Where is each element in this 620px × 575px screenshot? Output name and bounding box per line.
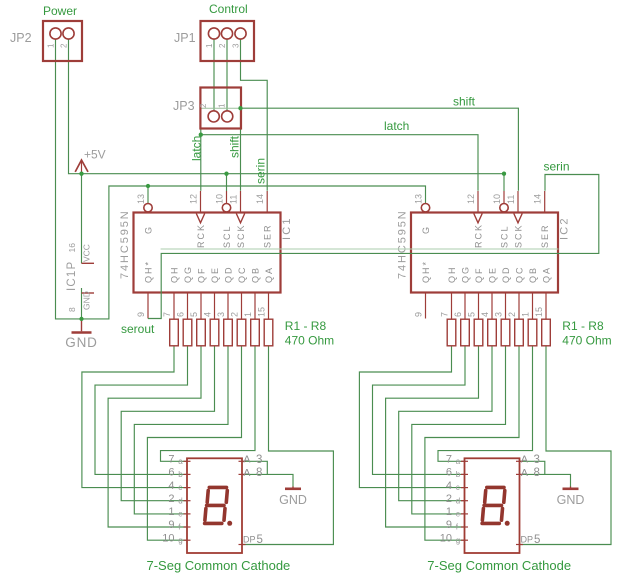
svg-text:2: 2: [218, 43, 227, 48]
net label serin (vertical): [254, 158, 268, 184]
svg-text:c: c: [456, 483, 460, 492]
svg-text:5: 5: [534, 534, 540, 546]
svg-text:10: 10: [492, 194, 502, 204]
svg-text:10: 10: [215, 194, 225, 204]
resistor R7 (bank 2): [528, 319, 537, 346]
svg-text:A: A: [521, 467, 528, 479]
svg-text:d: d: [456, 496, 460, 505]
wire display2 R5 to segment e: [412, 346, 506, 514]
resistor R6 (bank 2): [515, 319, 524, 346]
svg-text:5: 5: [467, 312, 477, 317]
wire display1 R2 to segment b: [95, 346, 188, 475]
wire display2 R4 to segment d: [399, 346, 492, 501]
svg-text:QE: QE: [488, 266, 498, 283]
svg-text:GND: GND: [279, 493, 307, 507]
connector JP3: [199, 88, 241, 129]
net label latch (horizontal): [384, 119, 409, 133]
svg-text:3: 3: [232, 43, 241, 48]
svg-text:4: 4: [446, 480, 452, 492]
svg-text:470 Ohm: 470 Ohm: [285, 334, 334, 348]
net label latch (vertical): [189, 136, 203, 161]
IC1 bottom pin numbers 9 7 6 5 4 3 2 1 15: [136, 307, 267, 317]
resistor R7 (bank 1): [251, 319, 260, 346]
wire +5V stub to IC2 SCL: [503, 174, 505, 191]
svg-text:QA: QA: [264, 266, 274, 283]
svg-text:A: A: [243, 454, 250, 466]
svg-text:A: A: [521, 454, 528, 466]
IC2 top pin numbers 13 12 10 11 14: [414, 194, 543, 204]
svg-text:JP2: JP2: [10, 31, 32, 45]
svg-text:g: g: [178, 536, 182, 545]
label 74HC595N of IC1: [119, 209, 131, 279]
IC1 top pin numbers 13 12 10 11 14: [136, 194, 265, 204]
junction shift at JP3: [238, 106, 242, 110]
IC1 top pin names G RCK SCL SCK SER: [144, 223, 273, 248]
svg-text:6: 6: [446, 467, 452, 479]
svg-text:SCL: SCL: [222, 224, 232, 248]
ground GND main: [72, 319, 92, 333]
svg-text:3: 3: [216, 312, 226, 317]
svg-text:8: 8: [534, 467, 540, 479]
IC2 bottom pin names QH* QH QG QF QE QD QC QB QA: [421, 260, 552, 283]
resistor R8 (bank 1): [264, 319, 273, 346]
svg-text:4: 4: [168, 480, 174, 492]
svg-text:5: 5: [189, 312, 199, 317]
wire JP1.2 to JP3.1: [226, 39, 228, 112]
wire display1 R6 to segment g: [147, 346, 241, 540]
net label serin (IC2): [544, 160, 570, 174]
power +5V symbol: [75, 160, 88, 174]
label JP1: [174, 31, 196, 45]
svg-text:GND: GND: [557, 493, 585, 507]
svg-text:GND: GND: [65, 335, 97, 350]
resistor R8 (bank 2): [542, 319, 551, 346]
svg-text:15: 15: [257, 307, 267, 317]
svg-text:QE: QE: [210, 266, 220, 283]
svg-text:1: 1: [243, 312, 253, 317]
svg-text:shift: shift: [453, 95, 476, 109]
power part IC1P pins 16 VCC / 8 GND: [67, 243, 94, 312]
svg-text:470 Ohm: 470 Ohm: [562, 334, 611, 348]
svg-text:c: c: [178, 483, 182, 492]
net label shift (vertical): [228, 135, 242, 158]
svg-text:14: 14: [533, 194, 543, 204]
svg-text:QB: QB: [528, 266, 538, 283]
wire display2 R2 to segment b: [373, 346, 466, 475]
svg-text:11: 11: [229, 195, 239, 204]
svg-text:1: 1: [446, 506, 452, 518]
7-seg display 2 body: [461, 458, 523, 553]
svg-text:e: e: [456, 510, 461, 519]
svg-text:serin: serin: [254, 158, 268, 184]
svg-text:+5V: +5V: [84, 148, 106, 162]
svg-text:a: a: [178, 457, 183, 466]
wire latch vertical to IC1 RCK: [200, 135, 202, 191]
svg-text:serout: serout: [121, 322, 155, 336]
display 2 segment pin labels a-g: [440, 454, 461, 545]
label IC2: [559, 216, 571, 240]
wire JP1.3 serin to IC1 SER: [241, 39, 268, 191]
svg-text:1: 1: [218, 103, 227, 108]
svg-text:R1 - R8: R1 - R8: [285, 319, 327, 333]
svg-text:Control: Control: [209, 2, 248, 16]
resistor R4 (bank 2): [488, 319, 497, 346]
label 470 Ohm (bank 1): [285, 334, 334, 348]
label 74HC595N of IC2: [397, 209, 409, 279]
resistor R4 (bank 1): [210, 319, 219, 346]
svg-text:1: 1: [47, 43, 56, 48]
svg-text:DP: DP: [243, 535, 256, 545]
resistor R1 (bank 2): [447, 319, 456, 346]
svg-text:b: b: [456, 470, 461, 479]
wire IC1P GND: [81, 288, 83, 319]
wire display2 R1 to segment c: [359, 346, 464, 488]
svg-text:g: g: [456, 536, 460, 545]
label R1 - R8 (bank 2): [562, 319, 604, 333]
svg-text:serin: serin: [544, 160, 570, 174]
svg-text:QG: QG: [183, 265, 193, 283]
svg-text:6: 6: [453, 312, 463, 317]
IC2 top pin names G RCK SCL SCK SER: [421, 223, 550, 248]
svg-text:2: 2: [168, 493, 174, 505]
svg-text:10: 10: [440, 532, 452, 544]
svg-text:13: 13: [414, 194, 424, 204]
label R1 - R8 (bank 1): [285, 319, 327, 333]
svg-text:SER: SER: [540, 223, 550, 248]
wire shift net: [241, 108, 519, 191]
label IC1P: [66, 261, 78, 291]
svg-text:VCC: VCC: [82, 244, 92, 262]
junction latch at JP3: [199, 133, 203, 137]
svg-text:QD: QD: [501, 266, 511, 284]
IC2 bottom pin leads: [426, 293, 547, 320]
svg-text:latch: latch: [189, 136, 203, 161]
svg-text:12: 12: [466, 194, 476, 204]
svg-text:DP: DP: [521, 535, 534, 545]
svg-text:1: 1: [205, 43, 214, 48]
svg-text:14: 14: [255, 194, 265, 204]
svg-text:7: 7: [162, 312, 172, 317]
IC1 bottom pin leads: [148, 293, 269, 320]
svg-text:6: 6: [176, 312, 186, 317]
connector JP1 (Control): [201, 21, 255, 61]
label GND display 2: [557, 493, 585, 507]
label 7-Seg Common Cathode (2): [427, 558, 571, 573]
svg-text:QH: QH: [170, 266, 180, 284]
digit 8 of display 2: [482, 487, 510, 525]
ground GND display 2: [563, 487, 579, 489]
wire display2 R6 to segment g: [425, 346, 519, 540]
svg-text:3: 3: [494, 312, 504, 317]
svg-text:4: 4: [203, 312, 213, 317]
7-seg display 1 body: [184, 458, 246, 553]
wire display1 A8 to GND: [242, 474, 293, 486]
wire IC1P VCC: [81, 174, 83, 264]
wire display1 R8 to segment DP: [242, 346, 333, 545]
wire +5V stub to IC1 SCL: [226, 174, 228, 191]
svg-text:7: 7: [440, 312, 450, 317]
svg-text:QB: QB: [251, 266, 261, 283]
wire display2 R7 to segment a: [438, 346, 533, 462]
wire G net: [82, 186, 426, 319]
resistor R2 (bank 2): [461, 319, 470, 346]
svg-text:7: 7: [446, 454, 452, 466]
wire JP2.2 to +5V rail: [69, 39, 82, 174]
net label serout: [121, 322, 155, 336]
svg-text:JP1: JP1: [174, 31, 196, 45]
svg-text:74HC595N: 74HC595N: [119, 209, 131, 279]
wire JP1.1 to JP3.2: [213, 39, 215, 112]
svg-text:QF: QF: [197, 267, 207, 284]
svg-text:2: 2: [199, 103, 208, 108]
IC IC2 body and top pins: [411, 191, 558, 293]
wire display1 R3 to segment f: [108, 346, 201, 527]
svg-text:QH: QH: [447, 266, 457, 284]
svg-text:IC1: IC1: [281, 216, 293, 240]
svg-text:8: 8: [67, 307, 77, 312]
wire JP2.1 to GND net: [56, 39, 82, 319]
wire display2 A3 to GND: [520, 461, 545, 474]
svg-text:74HC595N: 74HC595N: [397, 209, 409, 279]
digit 8 of display 1: [205, 487, 233, 525]
junction GND main: [79, 317, 83, 321]
svg-text:QC: QC: [237, 266, 247, 284]
svg-text:7: 7: [168, 454, 174, 466]
svg-text:IC2: IC2: [559, 216, 571, 240]
display 1 labels A3 A8 DP5: [243, 454, 263, 546]
svg-text:e: e: [178, 510, 183, 519]
svg-text:5: 5: [257, 534, 263, 546]
IC2 bottom pin numbers 9 7 6 5 4 3 2 1 15: [414, 307, 545, 317]
svg-text:JP3: JP3: [173, 99, 195, 113]
wire display1 R4 to segment d: [121, 346, 214, 501]
svg-text:2: 2: [60, 43, 69, 48]
svg-text:RCK: RCK: [196, 223, 206, 248]
svg-text:QC: QC: [515, 266, 525, 284]
svg-text:G: G: [421, 227, 431, 234]
svg-text:QH*: QH*: [144, 260, 154, 283]
svg-text:10: 10: [162, 532, 174, 544]
junction +5V at IC1 SCL: [224, 172, 228, 176]
svg-text:7-Seg Common Cathode: 7-Seg Common Cathode: [146, 558, 290, 573]
svg-text:13: 13: [136, 194, 146, 204]
svg-text:SCK: SCK: [236, 223, 246, 248]
wire display2 R3 to segment f: [386, 346, 479, 527]
svg-text:IC1P: IC1P: [66, 261, 78, 291]
wire display2 A8 to GND: [520, 474, 571, 486]
svg-text:16: 16: [67, 243, 77, 253]
label 7-Seg Common Cathode (1): [146, 558, 290, 573]
wire display1 R5 to segment e: [134, 346, 228, 514]
resistor R2 (bank 1): [183, 319, 192, 346]
net label shift (horizontal): [453, 95, 476, 109]
svg-text:2: 2: [230, 312, 240, 317]
wire serout from IC1 QH* to IC2 SER: [148, 175, 599, 319]
junction G net at IC1: [146, 184, 150, 188]
resistor R3 (bank 2): [474, 319, 483, 346]
label JP3: [173, 99, 195, 113]
resistor R6 (bank 1): [237, 319, 246, 346]
svg-text:b: b: [178, 470, 183, 479]
wire +5V rail: [82, 173, 505, 175]
wire faint parallel line: [161, 248, 559, 250]
wire G stub IC1: [147, 186, 149, 204]
svg-text:A: A: [243, 467, 250, 479]
svg-text:8: 8: [256, 467, 262, 479]
svg-text:3: 3: [256, 454, 262, 466]
label +5V: [84, 148, 106, 162]
svg-text:7-Seg Common Cathode: 7-Seg Common Cathode: [427, 558, 571, 573]
resistor R5 (bank 2): [501, 319, 510, 346]
resistor R5 (bank 1): [224, 319, 233, 346]
wire display1 R1 to segment c: [82, 346, 187, 488]
label GND display 1: [279, 493, 307, 507]
svg-text:9: 9: [446, 519, 452, 531]
svg-text:G: G: [144, 227, 154, 234]
svg-text:QF: QF: [474, 267, 484, 284]
connector JP2 (Power): [43, 21, 82, 61]
wire display1 A3 to GND: [242, 461, 267, 474]
wire latch net: [201, 129, 478, 191]
svg-text:2: 2: [446, 493, 452, 505]
svg-text:GND: GND: [82, 291, 92, 310]
svg-text:QH*: QH*: [421, 260, 431, 283]
IC IC1 body and top pins: [134, 191, 281, 293]
svg-text:latch: latch: [384, 119, 409, 133]
svg-text:QD: QD: [224, 266, 234, 284]
svg-text:1: 1: [521, 312, 531, 317]
IC1 bottom pin names QH* QH QG QF QE QD QC QB QA: [144, 260, 275, 283]
svg-text:SCK: SCK: [514, 223, 524, 248]
svg-text:Power: Power: [43, 4, 77, 18]
svg-text:d: d: [178, 496, 182, 505]
display 2 labels A3 A8 DP5: [521, 454, 541, 546]
label JP2: [10, 31, 32, 45]
junction +5V at arrow: [79, 172, 83, 176]
svg-text:1: 1: [168, 506, 174, 518]
svg-text:2: 2: [507, 312, 517, 317]
svg-text:shift: shift: [228, 135, 242, 158]
wire display1 R7 to segment a: [161, 346, 256, 462]
svg-text:15: 15: [534, 307, 544, 317]
wire shift vertical to IC1 SCK: [240, 108, 242, 191]
svg-text:3: 3: [534, 454, 540, 466]
label 470 Ohm (bank 2): [562, 334, 611, 348]
label Control: [209, 2, 248, 16]
svg-text:9: 9: [136, 312, 146, 317]
svg-text:QA: QA: [542, 266, 552, 283]
svg-text:12: 12: [189, 194, 199, 204]
svg-text:6: 6: [168, 467, 174, 479]
label GND main: [65, 335, 97, 350]
svg-text:SCL: SCL: [500, 224, 510, 248]
svg-text:QG: QG: [461, 265, 471, 283]
label IC1: [281, 216, 293, 240]
display 1 segment pin labels a-g: [162, 454, 183, 545]
resistor R1 (bank 1): [170, 319, 179, 346]
svg-text:RCK: RCK: [474, 223, 484, 248]
ground GND display 1: [285, 487, 301, 489]
svg-text:SER: SER: [263, 223, 273, 248]
resistor R3 (bank 1): [197, 319, 206, 346]
svg-text:9: 9: [168, 519, 174, 531]
junction +5V at IC2 SCL: [502, 172, 506, 176]
svg-text:R1 - R8: R1 - R8: [562, 319, 604, 333]
wire display2 R8 to segment DP: [520, 346, 612, 545]
label Power: [43, 4, 77, 18]
svg-text:11: 11: [506, 195, 516, 204]
svg-text:a: a: [456, 457, 461, 466]
svg-text:9: 9: [414, 312, 424, 317]
svg-text:4: 4: [480, 312, 490, 317]
